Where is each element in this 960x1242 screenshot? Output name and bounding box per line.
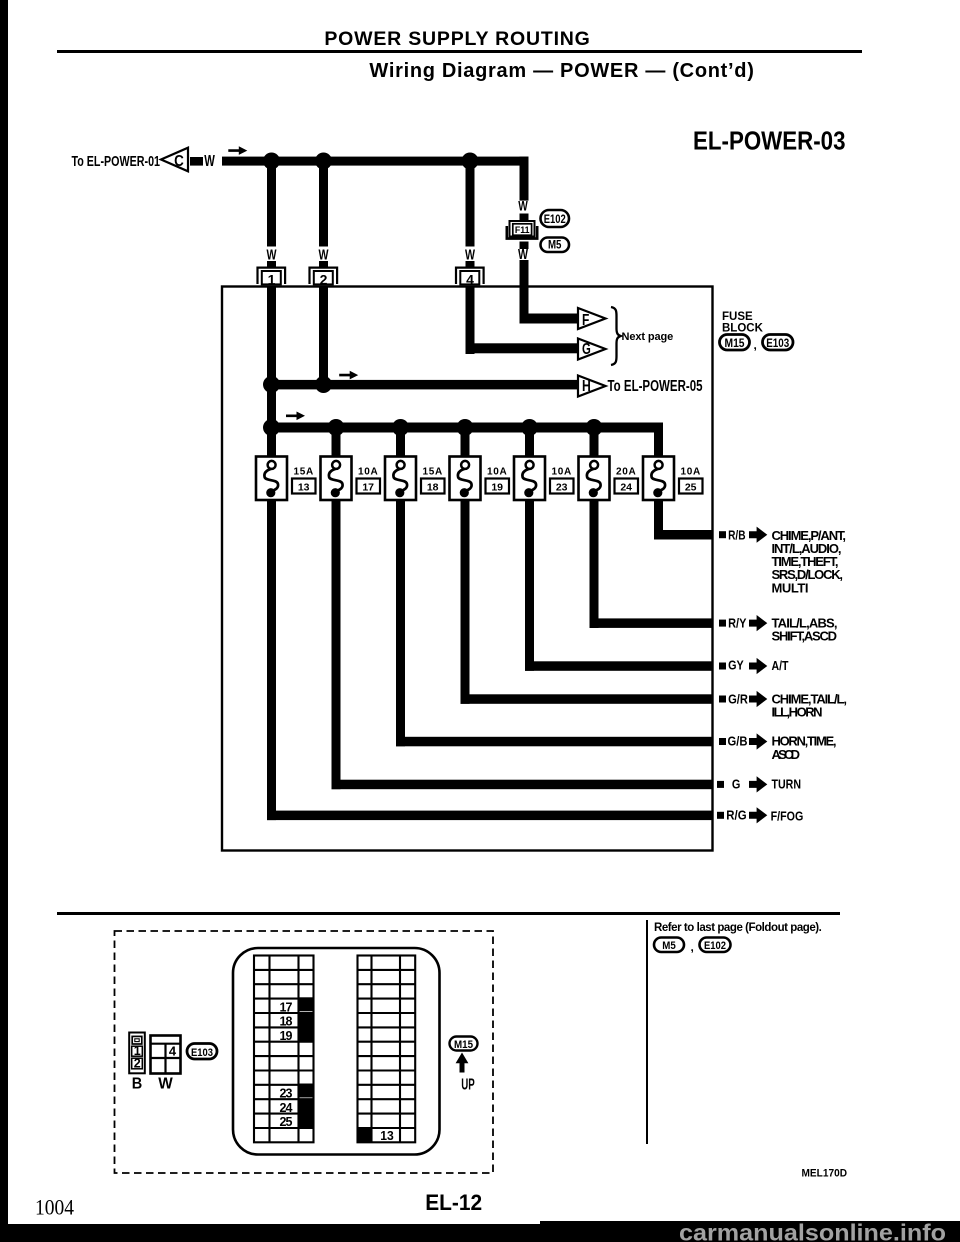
header rule	[57, 50, 862, 53]
node: H junction dot 2	[315, 376, 332, 393]
wire: output R/Y horizontal	[590, 618, 713, 628]
destination list for R/Y	[772, 615, 838, 643]
output R/Y	[719, 620, 726, 627]
wire: bus drop to fuse 7	[654, 423, 663, 458]
wire: output GY horizontal	[525, 661, 713, 671]
output G/B	[719, 738, 726, 745]
wire: output G/R horizontal	[461, 694, 713, 704]
wire: vertical drop to connector 4	[466, 161, 475, 247]
connector icon B	[129, 1033, 145, 1074]
fuse block box	[222, 287, 713, 851]
footer vertical divider	[646, 920, 648, 1144]
wire: fuse 2 output drop	[332, 500, 341, 789]
fuse 18 15A	[385, 457, 416, 501]
connector triangle C to EL-POWER-01	[161, 148, 188, 172]
fuse slot 23 marker	[299, 1084, 314, 1098]
connector id oval E102	[541, 210, 570, 227]
wire arrow on H feed	[339, 371, 358, 380]
wire arrow on fuse bus	[286, 412, 305, 421]
fuse grid left	[254, 956, 314, 1143]
fuse slot 18 marker	[299, 1013, 314, 1027]
footer separator line	[57, 912, 840, 915]
orientation arrow UP	[456, 1053, 469, 1073]
node: junction dot 2	[315, 153, 332, 170]
fuse 23 10A	[514, 457, 545, 501]
wire: fuse 3 output drop	[396, 500, 405, 746]
destination list for R/B	[772, 528, 847, 596]
fuse layout dashed frame	[115, 931, 494, 1173]
wire: fuse 6 output drop	[590, 500, 599, 628]
output R/B	[719, 531, 726, 538]
header title	[0, 28, 915, 51]
connector 4	[456, 268, 484, 285]
node: bus dot f6	[586, 419, 603, 436]
connector id oval M5	[541, 238, 570, 253]
watermark bar	[0, 1224, 960, 1242]
note refer to last page	[654, 922, 821, 934]
node: junction dot 1	[263, 153, 280, 170]
destination list for G/R	[772, 692, 848, 720]
connector id oval M5 footer	[654, 938, 684, 953]
wire: connector 4 feed to G triangle	[466, 343, 579, 353]
wire: feed to H triangle	[272, 380, 579, 390]
connector icon W	[151, 1036, 181, 1074]
wire: stub into fuse 3	[396, 432, 405, 457]
output G	[717, 781, 724, 788]
wire: stub into fuse 2	[332, 432, 341, 457]
svg-text:EL-12: EL-12	[425, 1190, 482, 1215]
wire: connector 1 drop inside block	[267, 287, 276, 432]
wire: stub into fuse 1	[267, 432, 276, 457]
page id EL-POWER-03	[0, 0, 960, 200]
fuse 19 10A	[450, 457, 481, 501]
connector 2	[310, 268, 338, 285]
wire: fuse 7 output drop	[654, 500, 663, 540]
svg-text:MEL170D: MEL170D	[802, 1168, 848, 1180]
output G/R	[719, 696, 726, 703]
triangle G next page	[578, 339, 606, 360]
destination list for G/B	[772, 734, 837, 762]
wire: output G/B horizontal	[396, 737, 713, 747]
wire: output R/B horizontal	[654, 530, 713, 540]
brace next page	[611, 307, 621, 365]
node: bus dot f1	[263, 419, 280, 436]
fuse slot 13 marker	[358, 1128, 372, 1142]
wire: F11 drop into fuse block	[520, 260, 529, 324]
header subtitle	[0, 60, 960, 83]
connector F11 outer box	[510, 221, 535, 237]
connector id oval E103 footer	[187, 1044, 217, 1060]
node: H junction dot 1	[263, 376, 280, 393]
scan page edge strip	[0, 0, 8, 1242]
wire: connector 2 drop inside block	[319, 287, 328, 386]
wire: stub into fuse 4	[461, 432, 470, 457]
fuse layout rounded outline	[233, 948, 440, 1155]
triangle H to EL-POWER-05	[578, 376, 606, 397]
wire: output R/G horizontal	[267, 811, 713, 821]
connector F11 cradle	[507, 226, 537, 239]
fuse grid right	[358, 956, 416, 1143]
wire: vertical drop to F11	[520, 157, 529, 201]
connector id oval E103	[763, 335, 794, 351]
wire arrow on main feed	[228, 146, 247, 155]
wire: fuse 1 output drop	[267, 500, 276, 820]
connector id oval M15	[720, 335, 750, 351]
wire: stub above F11	[520, 214, 529, 223]
fuse 13 15A	[256, 457, 287, 501]
output R/G	[717, 812, 724, 819]
wire: F11 feed to F triangle	[520, 314, 579, 324]
triangle F next page	[578, 308, 606, 329]
node: bus dot f3	[392, 419, 409, 436]
wire: fuse bus horizontal	[272, 423, 664, 433]
wire: vertical drop to connector 1	[267, 161, 276, 247]
fuse slot 25 marker	[299, 1114, 314, 1128]
svg-text:carmanualsonline.info: carmanualsonline.info	[679, 1220, 946, 1242]
connector F11 inner box	[513, 224, 532, 235]
wire: stub below F11	[520, 242, 529, 250]
node: junction dot 3	[462, 153, 479, 170]
fuse 17 10A	[321, 457, 352, 501]
wire: fuse 5 output drop	[525, 500, 534, 671]
wire: fuse 4 output drop	[461, 500, 470, 704]
fuse slot 19 marker	[299, 1028, 314, 1042]
connector 1	[258, 268, 286, 285]
output GY	[719, 663, 726, 670]
node: bus dot f5	[521, 419, 538, 436]
fuse slot 17 marker	[299, 997, 314, 1011]
wire: connector 4 drop inside block	[466, 287, 475, 354]
connector id oval M15 footer	[450, 1037, 478, 1051]
wire: stub from C triangle	[190, 157, 203, 166]
fuse 24 20A	[579, 457, 610, 501]
wire: stub into fuse 6	[590, 432, 599, 457]
connector id oval E102 footer	[700, 938, 731, 953]
svg-text:1004: 1004	[35, 1195, 74, 1220]
node: bus dot f4	[457, 419, 474, 436]
fuse number labels left grid	[280, 1000, 293, 1129]
fuse 25 10A	[643, 457, 674, 501]
fuse slot 24 marker	[299, 1099, 314, 1113]
wire: stub into fuse 5	[525, 432, 534, 457]
node: bus dot f2	[328, 419, 345, 436]
wire: vertical drop to connector 2	[319, 161, 328, 247]
wire: main feed horizontal	[222, 157, 529, 166]
wire: output G horizontal	[332, 780, 713, 790]
